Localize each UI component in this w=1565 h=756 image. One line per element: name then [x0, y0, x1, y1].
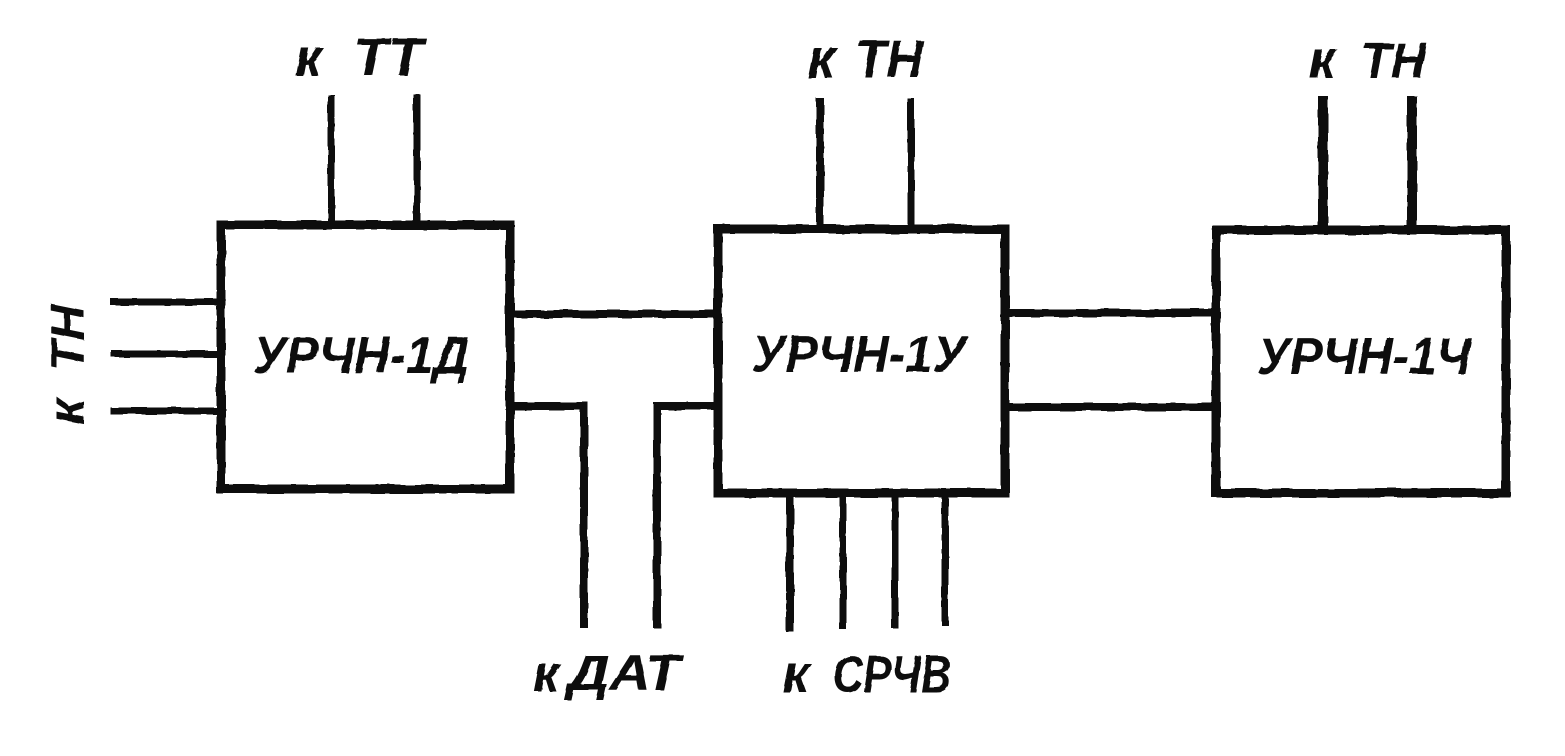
label к ТН (left, rotated) — [38, 304, 96, 425]
svg-text:к: к — [1309, 31, 1339, 90]
svg-text:к: к — [807, 27, 839, 91]
svg-text:УРЧН-1Ч: УРЧН-1Ч — [1257, 328, 1472, 386]
svg-text:УРЧН-1Д: УРЧН-1Д — [253, 327, 469, 385]
wire lower left stub from УРЧН-1Д to ДАТ — [510, 406, 584, 624]
svg-text:СРЧВ: СРЧВ — [833, 646, 951, 704]
wire lower right stub from ДАТ to УРЧН-1У — [657, 406, 718, 624]
svg-text:к: к — [782, 644, 812, 704]
svg-text:ДАТ: ДАТ — [563, 645, 685, 701]
wire TT-1 top of УРЧН-1Д — [328, 98, 335, 225]
label к ТН (middle top) — [807, 27, 925, 91]
block УРЧН-1Д — [221, 225, 510, 489]
label к ДАТ — [533, 645, 685, 702]
wire SRCHV pin 3 — [892, 493, 899, 625]
wire TN-left-2 into УРЧН-1Д — [115, 351, 221, 358]
wire TN-mid-2 top of УРЧН-1У — [908, 102, 915, 229]
block УРЧН-1У — [718, 229, 1005, 493]
svg-text:к: к — [38, 396, 96, 425]
wire TN-left-1 into УРЧН-1Д — [114, 299, 221, 306]
svg-text:к: к — [295, 29, 325, 88]
wire upper bus УРЧН-1У to УРЧН-1Ч — [1005, 309, 1216, 317]
wire SRCHV pin 4 — [942, 493, 949, 622]
label к СРЧВ — [782, 644, 951, 704]
wire SRCHV pin 2 — [840, 493, 847, 626]
svg-text:к: к — [533, 645, 561, 702]
block УРЧН-1Ч — [1216, 230, 1506, 493]
svg-text:ТН: ТН — [855, 30, 925, 89]
svg-text:ТН: ТН — [41, 304, 94, 371]
wire TN-left-3 into УРЧН-1Д — [114, 408, 221, 415]
wire TN-right-2 top of УРЧН-1Ч — [1407, 101, 1417, 230]
wire TT-2 top of УРЧН-1Д — [414, 98, 421, 225]
wire TN-mid-1 top of УРЧН-1У — [816, 102, 824, 229]
wire upper bus УРЧН-1Д to УРЧН-1У — [510, 310, 718, 318]
wire TN-right-1 top of УРЧН-1Ч — [1318, 101, 1328, 230]
label к ТТ — [295, 28, 428, 88]
wire SRCHV pin 1 — [786, 493, 794, 628]
label к ТН (right top) — [1309, 31, 1427, 90]
svg-text:ТТ: ТТ — [353, 28, 428, 87]
wire lower bus УРЧН-1У to УРЧН-1Ч — [1005, 403, 1216, 411]
svg-text:УРЧН-1У: УРЧН-1У — [752, 326, 970, 384]
svg-text:ТН: ТН — [1361, 33, 1427, 89]
